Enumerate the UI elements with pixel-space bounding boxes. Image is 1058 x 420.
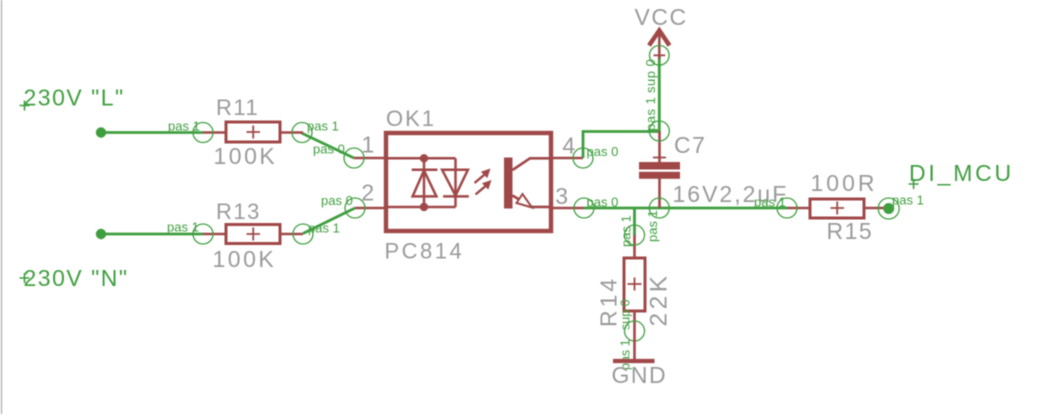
svg-text:pas 1: pas 1 (754, 195, 786, 210)
pin circle OK1 pin1 (344, 148, 364, 168)
svg-text:pas 0: pas 0 (313, 141, 345, 156)
wire L to R11 (101, 131, 203, 134)
junction dot DI_MCU (883, 203, 894, 214)
pin 2 line (355, 207, 386, 210)
diode D-right (pointing down) (442, 170, 469, 197)
pin circle R15 left (777, 198, 797, 218)
phototransistor base bar (504, 158, 513, 209)
svg-text:1: 1 (362, 132, 375, 158)
pin 1 line (354, 157, 386, 160)
svg-text:R13: R13 (216, 199, 261, 224)
pin circle VCC (650, 46, 670, 66)
pin circle R11 pin1 (193, 123, 213, 143)
net label 230V "N" (20, 265, 129, 291)
svg-text:pas 1: pas 1 (308, 221, 340, 236)
pin circle OK1 pin3 (574, 198, 594, 218)
svg-text:R15: R15 (827, 218, 874, 244)
pin circle OK1 pin4 (573, 148, 593, 168)
svg-text:pas 1: pas 1 (892, 192, 924, 207)
pin circle R13 pin2 (293, 224, 313, 244)
junction dot bottom (420, 203, 428, 211)
emitter arrowhead (517, 194, 533, 208)
wire OK1 pin4 to VCC node (583, 132, 659, 159)
pin circle R14 top (625, 225, 645, 245)
pin circle C7 bottom (649, 198, 669, 218)
wire OK1 pin3 to R15 (584, 207, 787, 210)
right branch (454, 158, 457, 207)
junction dot N (96, 229, 106, 239)
svg-text:OK1: OK1 (386, 106, 436, 131)
svg-text:pas 1: pas 1 (619, 215, 634, 247)
svg-text:sup 0: sup 0 (643, 59, 658, 93)
svg-text:2: 2 (361, 180, 374, 206)
pin circle R11 pin2 (292, 123, 312, 143)
pin circle C7 top (649, 121, 669, 141)
resistor R14 (624, 235, 645, 331)
wire N to R13 (101, 233, 203, 236)
pin circle R13 pin1 (193, 224, 213, 244)
svg-text:VCC: VCC (635, 4, 688, 30)
svg-text:pas 1: pas 1 (307, 119, 339, 134)
svg-text:3: 3 (555, 183, 568, 209)
LED bottom rail (388, 206, 456, 209)
diode D-left (pointing up) (412, 170, 438, 197)
svg-text:pas 1: pas 1 (168, 119, 200, 134)
wire R13 to OK1 pin 2 (303, 208, 355, 234)
net label 230V "L" (20, 85, 125, 111)
pin circle OK1 pin2 (345, 198, 365, 218)
emitter (513, 196, 552, 207)
light arrow 1 (475, 169, 491, 184)
pin circle R14 bottom (625, 321, 645, 341)
OK1 box (386, 133, 551, 231)
svg-text:pas 1: pas 1 (645, 210, 660, 242)
wire R11 to OK1 pin 1 (302, 133, 355, 158)
wire tap down to R14 (633, 208, 636, 235)
ground symbol GND (612, 331, 668, 388)
svg-text:GND: GND (612, 362, 668, 388)
svg-text:R11: R11 (216, 95, 259, 120)
junction dot top (420, 154, 428, 162)
svg-text:100K: 100K (214, 143, 278, 169)
svg-text:230V "N": 230V "N" (24, 265, 129, 291)
wire VCC down to C7 (658, 55, 661, 131)
power symbol VCC (635, 4, 688, 59)
svg-text:pas 1: pas 1 (643, 97, 658, 131)
pin circle R15 right (878, 198, 899, 219)
junction dot L (96, 127, 106, 137)
svg-text:PC814: PC814 (385, 239, 465, 264)
capacitor C7 (639, 131, 680, 208)
resistor R15 (787, 199, 888, 218)
resistor R11 (203, 122, 303, 142)
svg-text:100R: 100R (811, 170, 878, 196)
resistor R13 (203, 225, 303, 244)
svg-text:pas 1: pas 1 (167, 220, 199, 235)
left branch (423, 158, 426, 207)
collector (513, 158, 552, 170)
svg-text:100K: 100K (213, 246, 277, 272)
svg-text:230V "L": 230V "L" (24, 85, 125, 111)
svg-text:22K: 22K (646, 272, 673, 326)
pin 3 line (551, 207, 584, 210)
svg-text:C7: C7 (674, 132, 706, 158)
LED top rail (388, 157, 456, 160)
svg-text:pas 0: pas 0 (587, 144, 619, 159)
light arrow 2 (476, 180, 492, 195)
optocoupler OK1 (354, 133, 584, 231)
svg-text:sup 0: sup 0 (619, 299, 633, 330)
net label DI_MCU (909, 160, 1014, 189)
pin 4 line (551, 157, 583, 160)
svg-text:DI_MCU: DI_MCU (909, 160, 1014, 186)
svg-text:pas 0: pas 0 (321, 193, 353, 208)
svg-text:4: 4 (562, 133, 575, 159)
